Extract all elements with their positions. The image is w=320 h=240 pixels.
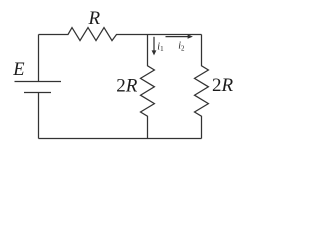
svg-text:2R: 2R [116, 76, 138, 97]
svg-text:i1: i1 [157, 41, 164, 53]
svg-text:i2: i2 [178, 41, 185, 53]
svg-text:2R: 2R [212, 75, 234, 96]
svg-text:R: R [88, 8, 101, 29]
svg-text:E: E [12, 60, 24, 80]
